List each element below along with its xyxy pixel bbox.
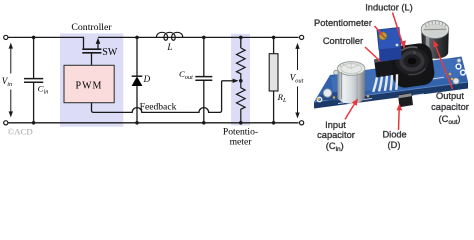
svg-text:Diode: Diode <box>382 130 406 140</box>
node diode top <box>135 36 139 40</box>
wire PWM to feedback <box>92 103 94 113</box>
svg-text:capacitor: capacitor <box>317 130 355 140</box>
svg-text:(D): (D) <box>388 140 401 150</box>
photo: pad ring out minus <box>461 70 466 75</box>
photo: annotation line potentiometer <box>375 26 384 36</box>
photo: silkscreen marks <box>338 77 444 103</box>
photo: potentiometer trimmer <box>377 28 402 62</box>
potentiometer lower element <box>237 81 246 123</box>
svg-text:Feedback: Feedback <box>140 102 177 113</box>
photo: annotation arrow inductor <box>393 13 406 50</box>
Vin voltage arrow upper <box>9 43 13 74</box>
capacitor Cout <box>195 77 212 81</box>
photo: inductor top face <box>395 47 429 75</box>
wire diode upper <box>136 37 138 76</box>
potentiometer wiper arrow <box>222 79 239 83</box>
wire RL upper <box>273 37 275 53</box>
wire bottom rail <box>8 122 298 124</box>
wire Cin upper <box>33 37 35 78</box>
terminal bottom-right <box>300 121 304 125</box>
node diode bottom <box>135 121 139 125</box>
photo: annotation arrow diode <box>397 104 403 131</box>
wire top rail right <box>98 36 299 38</box>
inductor L <box>156 32 182 40</box>
terminal bottom-left <box>4 121 8 125</box>
svg-text:D: D <box>143 74 151 84</box>
node potentiometer top <box>239 36 243 40</box>
svg-text:©ACD: ©ACD <box>8 127 33 137</box>
svg-text:Controller: Controller <box>71 22 112 33</box>
node Cout top <box>202 36 206 40</box>
photo: diode component <box>398 92 413 107</box>
photo: output capacitor <box>421 21 449 59</box>
diode D <box>132 76 143 86</box>
node RL top <box>272 36 276 40</box>
photo: controller IC body <box>374 55 406 78</box>
potentiometer upper element <box>237 48 246 81</box>
node Cout bottom <box>202 121 206 125</box>
wire gate to PWM <box>91 53 93 66</box>
wire Cout upper <box>203 37 205 76</box>
photo: pad ring out plus <box>456 64 461 69</box>
svg-text:Inductor (L): Inductor (L) <box>365 2 413 12</box>
Vout voltage arrow lower <box>295 87 299 119</box>
transistor SW (MOSFET switch) <box>82 37 101 53</box>
wire Cin lower <box>33 83 35 123</box>
photo: controller IC pins <box>373 74 397 92</box>
svg-text:Output: Output <box>436 91 464 101</box>
svg-text:SW: SW <box>102 47 118 58</box>
photo: annotation arrow input capacitor <box>345 99 358 120</box>
svg-text:Potentiometer: Potentiometer <box>314 18 372 28</box>
wire diode lower <box>136 86 138 123</box>
photo: PCB right end face <box>462 57 469 89</box>
photo: input capacitor <box>338 62 365 104</box>
PWM block <box>64 65 114 102</box>
photo: annotation line controller <box>365 47 380 61</box>
node RL bottom <box>272 121 276 125</box>
svg-text:PWM: PWM <box>76 80 103 91</box>
svg-text:L: L <box>166 43 172 53</box>
Vin voltage arrow lower <box>9 90 13 118</box>
controller region highlight <box>60 33 123 126</box>
terminal top-right <box>300 35 304 39</box>
Vout voltage arrow upper <box>295 43 299 70</box>
capacitor Cin <box>24 79 43 83</box>
photo: mounting hole left <box>323 89 331 97</box>
wire feedback line with hops <box>94 81 222 113</box>
wire Cout lower <box>203 81 205 123</box>
svg-text:Controller: Controller <box>323 36 363 46</box>
photo: mounting hole back-right <box>457 59 461 63</box>
photo: PCB top face <box>314 57 468 103</box>
photo: mounting hole back-left <box>334 70 339 75</box>
node potentiometer bottom <box>239 121 243 125</box>
node Cin top <box>32 36 36 40</box>
node Cin bottom <box>32 121 36 125</box>
photo: gold pads <box>317 73 453 101</box>
photo: PCB front edge highlight <box>314 82 468 102</box>
potentiometer region highlight <box>231 34 250 126</box>
wire top rail left <box>8 36 83 38</box>
photo: pad ring in plus <box>317 97 321 101</box>
photo: annotation arrow output capacitor <box>433 40 452 89</box>
svg-text:meter: meter <box>230 136 253 147</box>
svg-text:capacitor: capacitor <box>431 102 469 112</box>
node potentiometer wiper <box>239 79 243 83</box>
terminal top-left <box>4 35 8 39</box>
resistor RL <box>269 54 278 91</box>
wire potentiometer upper <box>240 37 242 48</box>
photo annotation labels <box>314 2 469 153</box>
photo: PCB side face <box>314 82 468 109</box>
photo: inductor body <box>389 42 436 89</box>
wire RL lower <box>273 91 275 123</box>
photo: mounting hole bottom-right <box>453 78 459 84</box>
svg-text:Input: Input <box>325 120 346 130</box>
photo: PCB lighter streaks <box>331 59 465 94</box>
